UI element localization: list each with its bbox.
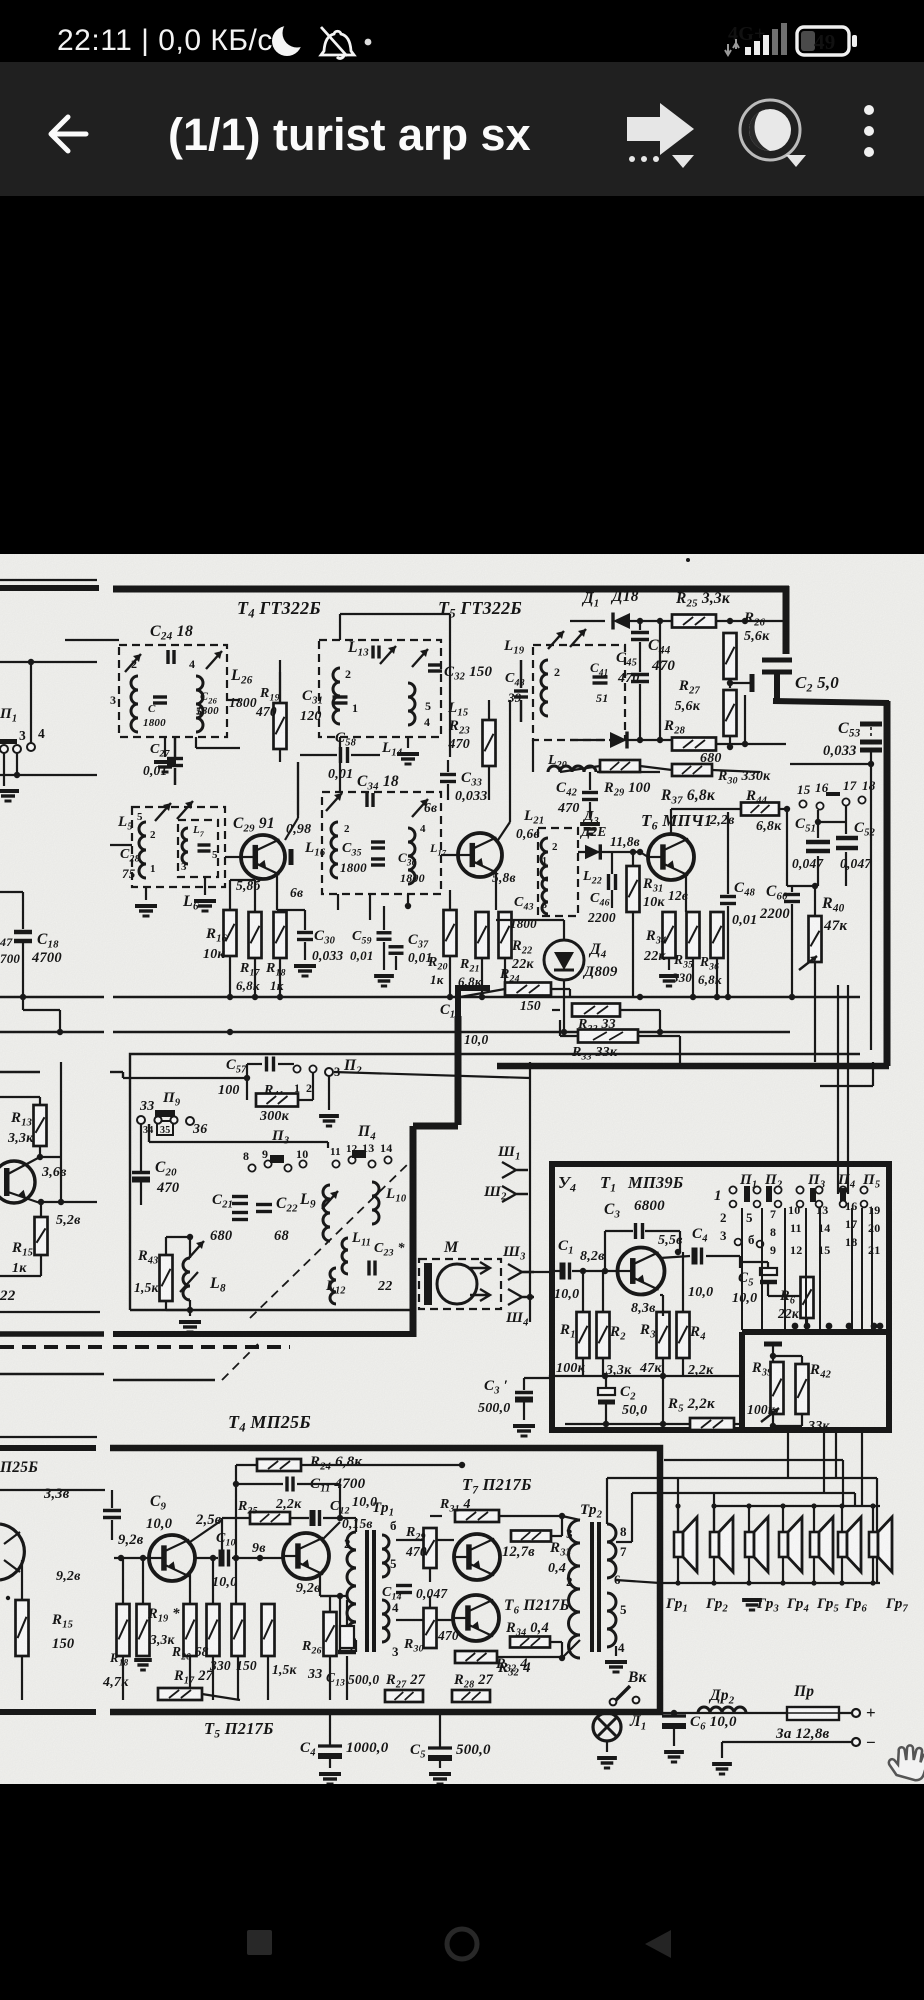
fuse Pr [787, 1707, 839, 1720]
lamp L1 [593, 1713, 621, 1741]
wire [22, 941, 24, 997]
wire [212, 1558, 214, 1604]
capacitor C5 [760, 1268, 777, 1282]
resistor R43 [160, 1255, 173, 1301]
capacitor C42 [582, 793, 598, 800]
wire [671, 808, 741, 810]
capacitor C1u [563, 1263, 570, 1280]
wire speaker top bus [715, 1505, 880, 1507]
node dot [6, 1596, 10, 1600]
wire [189, 1300, 191, 1316]
svg-text:49: 49 [814, 30, 835, 54]
capacitor C35b [371, 859, 385, 865]
junction [711, 1503, 716, 1508]
speaker Гр4 [779, 1517, 802, 1572]
wire speaker feed 0 [664, 1459, 843, 1461]
junction [657, 737, 663, 743]
capacitor C2 electrolytic [598, 1388, 615, 1402]
speaker Гр7 [869, 1517, 892, 1572]
speaker Гр3 [745, 1517, 768, 1572]
wire [682, 1358, 684, 1376]
wire [782, 1506, 784, 1532]
box inner R39/R42 thick border [742, 1332, 889, 1430]
ground [135, 906, 157, 916]
wire switch column [847, 985, 849, 1194]
capacitor C53 [860, 724, 882, 750]
wire [551, 1535, 562, 1537]
wire [772, 1344, 774, 1362]
ground [429, 1774, 451, 1784]
wire [174, 737, 177, 757]
wire [339, 1484, 341, 1518]
wire [560, 1035, 578, 1037]
wire [673, 1713, 675, 1716]
wire [560, 766, 600, 772]
resistor R19 [274, 703, 287, 749]
capacitor C46 [609, 874, 616, 890]
wire to T6 base [396, 1619, 453, 1621]
wire [524, 1377, 552, 1379]
wire [140, 1182, 142, 1205]
resistor R41 [256, 1094, 298, 1107]
wire [660, 1256, 690, 1258]
resistor R37 [672, 764, 712, 776]
junction [244, 1075, 250, 1081]
switch P3 contacts [248, 1164, 255, 1171]
wire [195, 737, 197, 748]
wire [679, 1036, 681, 1066]
capacitor C45 [631, 675, 649, 682]
wire [323, 1517, 340, 1519]
wire [845, 852, 847, 886]
inductor L26a [196, 676, 203, 732]
capacitor C2 [762, 660, 792, 672]
junction [459, 1462, 465, 1468]
diode D2 [610, 732, 627, 749]
ground [319, 1774, 341, 1784]
switch bank contact row [729, 1186, 736, 1193]
junction [28, 659, 34, 665]
wire [779, 808, 787, 810]
ground [397, 754, 419, 764]
wire [277, 909, 305, 911]
junction [826, 1323, 833, 1330]
wire [616, 1541, 632, 1543]
wire [298, 1099, 313, 1101]
data arrows [725, 39, 739, 55]
hand cursor overlay [886, 1742, 924, 1786]
switch P1 contacts [0, 739, 17, 744]
wire left bus [0, 1311, 100, 1313]
wire [226, 699, 240, 701]
switch R41 contacts 1 2 [293, 1065, 300, 1072]
trimmer L19b [570, 629, 586, 647]
junction [727, 680, 733, 686]
wire [236, 1464, 257, 1466]
wire [767, 1262, 769, 1268]
resistor R42 [796, 1364, 809, 1414]
resistor R22b [232, 1604, 245, 1656]
resistor R30b [424, 1608, 437, 1648]
capacitor C10 [222, 1550, 229, 1567]
node scan dot [686, 558, 690, 562]
wire [639, 621, 641, 630]
resistor R32b [455, 1651, 497, 1663]
wire thin left [0, 1436, 97, 1438]
resistor R15b [16, 1600, 29, 1656]
wire [59, 1010, 61, 1032]
junction [58, 1199, 64, 1205]
wire base [225, 856, 241, 858]
wire [520, 919, 564, 921]
wire [22, 997, 24, 1010]
ground [742, 1600, 762, 1610]
junction [784, 806, 790, 812]
ground [179, 1322, 201, 1332]
box L5 L7 [132, 807, 225, 887]
wire [559, 1020, 561, 1036]
wire [520, 660, 523, 688]
box L21 L22 [538, 828, 578, 916]
diode D3 Д2Е [585, 844, 600, 859]
wire [39, 1097, 41, 1105]
capacitor C12 [313, 1510, 320, 1526]
wire [346, 1600, 348, 1626]
transistor Q T4 GT322B [241, 835, 285, 879]
junction [660, 1373, 666, 1379]
wire [340, 1517, 352, 1519]
wire [407, 737, 409, 748]
wire [792, 885, 815, 887]
wire [221, 1518, 223, 1558]
junction [657, 618, 663, 624]
wire left stub bottom [0, 1709, 96, 1715]
wire speaker2 column [713, 1493, 715, 1532]
wire dashed under separator [0, 1345, 104, 1349]
inductor L20 [548, 766, 596, 772]
speaker Гр6 [838, 1517, 861, 1572]
switch bank contact row 2 [730, 1201, 737, 1208]
wire [301, 1464, 462, 1466]
resistor R22 [499, 912, 512, 958]
wire switch box bottom [130, 1309, 413, 1311]
wire left stub top [0, 1445, 96, 1451]
junction [561, 1029, 567, 1035]
terminal bar R39 top [764, 1342, 782, 1347]
wire [662, 1358, 664, 1424]
junction [868, 761, 874, 767]
switch Vk [610, 1686, 640, 1705]
wire [729, 736, 731, 747]
inductor L25 [131, 676, 138, 732]
junction [811, 1503, 816, 1508]
capacitor C51 [806, 842, 830, 851]
wire [768, 1295, 807, 1297]
ground [134, 1660, 152, 1670]
wire [845, 806, 847, 834]
nav back triangle [645, 1930, 671, 1958]
wire positive rail [660, 1712, 852, 1714]
box L13/L14 tank [319, 640, 441, 737]
resistor R39 [761, 1362, 784, 1422]
wire right edge bus [884, 701, 891, 1066]
junction [14, 772, 20, 778]
wire switch column [761, 1208, 763, 1330]
resistor R5 [690, 1418, 734, 1430]
wire [605, 1230, 633, 1232]
wire [140, 1142, 142, 1171]
speaker Гр1 [674, 1517, 697, 1572]
capacitor C1 [455, 986, 490, 1016]
trimmer C24b [206, 651, 222, 669]
inductor Tr2 primary [569, 1520, 581, 1658]
wire [30, 662, 32, 743]
trimmer C24a [125, 654, 141, 672]
box C34 tank [322, 792, 441, 894]
wire [460, 989, 505, 997]
nav circle [447, 1929, 477, 1959]
transistor Q T5 P217B [283, 1533, 329, 1579]
trimmer L8 slug [188, 1241, 204, 1259]
wire gang dashed diagonal [250, 1160, 412, 1318]
wire [122, 1656, 124, 1700]
ground [319, 1116, 339, 1126]
wire [607, 1477, 647, 1479]
wire [602, 1271, 604, 1312]
wire [300, 754, 337, 756]
capacitor C31 [333, 697, 348, 703]
capacitor C bypass [750, 674, 755, 692]
wire [395, 956, 397, 970]
wire [748, 1557, 750, 1583]
terminal plus [852, 1709, 860, 1717]
wire [561, 1642, 563, 1658]
junction [871, 1323, 878, 1330]
wire [730, 682, 752, 684]
wire [40, 1202, 42, 1217]
wire [639, 642, 641, 672]
wire [660, 1294, 663, 1296]
wire speaker feed 2 [640, 1492, 855, 1494]
wire [407, 894, 409, 906]
wire base [441, 854, 458, 856]
wire [0, 1275, 41, 1277]
wire [297, 1483, 340, 1485]
resistor R26 [724, 633, 737, 679]
resistor R15a [35, 1217, 48, 1255]
box switch section [130, 1054, 860, 1310]
capacitor C34 [367, 793, 373, 807]
junction [337, 1515, 343, 1521]
capacitor C44 [631, 633, 649, 640]
inductor L9 [323, 1185, 330, 1241]
junction [746, 1580, 751, 1585]
wire right inner vertical [870, 764, 872, 1050]
capacitor C4 electrolytic [318, 1746, 342, 1756]
wire diode row link [659, 621, 661, 740]
wire [149, 1141, 328, 1143]
wire [570, 620, 605, 622]
ground [374, 976, 394, 986]
switch P2 contact 3 [325, 1068, 333, 1076]
wire [509, 700, 511, 822]
wire [662, 1295, 664, 1316]
ground [580, 824, 600, 834]
junction [742, 741, 748, 747]
capacitor C31a [373, 646, 379, 659]
wire [352, 1517, 356, 1519]
wire mic to U4 [522, 1271, 552, 1273]
junction [770, 1423, 776, 1429]
junction [846, 1323, 853, 1330]
resistor R20b [184, 1604, 197, 1656]
wire [551, 988, 570, 990]
inductor L8 [183, 1258, 190, 1300]
wire [589, 802, 591, 818]
wire [165, 1301, 167, 1310]
capacitor C21b [232, 1213, 248, 1220]
switch contacts 3-6 [735, 1239, 742, 1246]
wire [713, 1557, 715, 1583]
switch bank contact bars [744, 1186, 750, 1202]
wire [189, 1572, 191, 1604]
wire [716, 743, 745, 745]
junction [780, 1503, 785, 1508]
wire [773, 1355, 802, 1357]
resistor R27 [724, 690, 737, 736]
scan noise overlay [0, 0, 1, 1]
wire [429, 1596, 431, 1608]
wire [278, 1063, 294, 1065]
wire [787, 885, 792, 887]
wire [632, 912, 634, 997]
wire thick AF separator left [0, 1331, 104, 1337]
junction [727, 744, 733, 750]
wire [523, 1378, 525, 1390]
wire down to C33 [449, 614, 451, 757]
wire [620, 1009, 660, 1011]
wire [532, 740, 534, 772]
capacitor C37 [389, 947, 404, 954]
battery [797, 27, 849, 55]
wire [123, 1077, 247, 1079]
junction [57, 1029, 63, 1035]
wire [817, 856, 819, 886]
wire [337, 894, 339, 910]
wire [429, 1568, 431, 1582]
wire [713, 1506, 715, 1532]
junction [839, 1580, 844, 1585]
wire [23, 1009, 60, 1011]
junction [637, 849, 643, 855]
resistor R6 [801, 1277, 814, 1318]
wire [721, 1742, 723, 1758]
wire to diode D3 [578, 851, 640, 853]
wire [632, 1492, 640, 1494]
resistor R36 [711, 912, 724, 958]
wire [237, 1656, 239, 1700]
box U4 amplifier thick border [552, 1164, 889, 1430]
junction [637, 737, 643, 743]
junction [711, 1580, 716, 1585]
wire [22, 892, 24, 929]
wire [496, 919, 520, 921]
wire [113, 1379, 215, 1381]
wire [189, 1237, 191, 1258]
resistor R17 [249, 912, 262, 958]
junction [427, 1537, 433, 1543]
capacitor C27 [167, 759, 183, 766]
wire emitter [495, 872, 497, 910]
wire switch column [805, 1208, 807, 1330]
inductor L14a [408, 683, 415, 725]
junction [187, 1234, 193, 1240]
wire collector [498, 822, 510, 840]
junction [257, 1555, 263, 1561]
wire [383, 942, 385, 970]
wire [740, 1261, 768, 1263]
wire [497, 1656, 562, 1658]
transistor Q T6 MP41 [648, 834, 694, 880]
junction [559, 1513, 565, 1519]
wire [297, 762, 299, 818]
wire [817, 810, 819, 838]
wire [745, 743, 786, 745]
junction [815, 819, 821, 825]
wire [329, 1712, 331, 1746]
signal bars [745, 35, 769, 55]
trimmer L5b [177, 801, 193, 819]
toolbar [0, 62, 924, 196]
inductor L11 [342, 1238, 348, 1274]
resistor R18 [274, 912, 287, 958]
transistor T3b partial [0, 1524, 24, 1580]
wire [481, 958, 483, 997]
box microphone M [419, 1259, 501, 1309]
ground [294, 966, 316, 976]
inductor L21 [541, 838, 548, 880]
capacitor C3 [636, 1223, 643, 1239]
wire switch column [741, 1208, 743, 1330]
resistor R26b [324, 1612, 337, 1656]
wire [329, 1656, 331, 1700]
trimmer L5 [155, 803, 171, 821]
wire [791, 886, 793, 892]
wire U4 to speaker feed [823, 1430, 825, 1493]
wire [841, 1506, 843, 1532]
wire [552, 1009, 560, 1011]
wire [677, 1557, 679, 1583]
connector Sh1 [502, 1162, 528, 1178]
transistor Q T1 MP39B [618, 1248, 665, 1295]
wire [247, 1063, 262, 1065]
kebab menu [864, 105, 874, 157]
wire hook [110, 1071, 123, 1073]
trimmer L8 arrow2 [180, 1272, 198, 1292]
junction [427, 1617, 433, 1623]
junction [527, 1294, 533, 1300]
microphone M [424, 1262, 490, 1305]
diode D1 Д18 [613, 613, 630, 630]
wire [449, 956, 451, 997]
capacitor C57 [267, 1057, 274, 1072]
inductor L17a [331, 822, 338, 878]
capacitor C14 [396, 1586, 412, 1593]
wire [767, 1282, 769, 1296]
wire [813, 1557, 815, 1583]
capacitor C11 [287, 1477, 293, 1492]
wire thick drop step [413, 1016, 458, 1337]
